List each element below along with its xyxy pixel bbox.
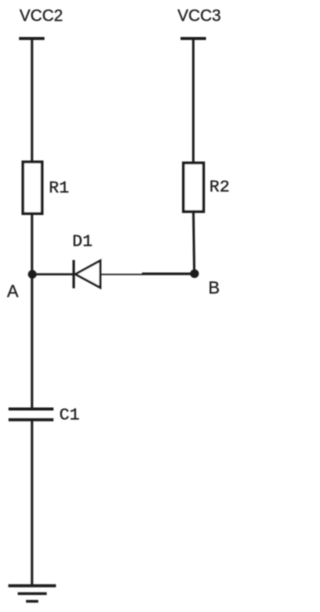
resistor R1 — [23, 162, 42, 214]
svg-text:VCC2: VCC2 — [20, 7, 63, 25]
svg-text:D1: D1 — [72, 233, 92, 252]
label C1 — [59, 406, 79, 425]
label R2 — [209, 178, 229, 197]
wire diode anode lead — [101, 273, 144, 275]
svg-text:R2: R2 — [209, 178, 229, 197]
resistor R2 — [183, 163, 203, 212]
capacitor C1 — [9, 409, 54, 420]
node B junction — [190, 269, 199, 278]
label D1 — [72, 233, 92, 252]
ground — [8, 586, 56, 602]
net label VCC3 — [178, 7, 221, 25]
label A — [7, 281, 19, 301]
label R1 — [49, 179, 69, 198]
wire node A to C1 top — [31, 274, 33, 408]
wire VCC2 bar to R1 top — [31, 39, 33, 163]
svg-text:A: A — [7, 281, 19, 301]
diode D1 — [74, 260, 101, 288]
power symbol VCC2 — [19, 37, 45, 40]
power symbol VCC3 — [181, 37, 207, 40]
wire node A to diode cathode — [32, 273, 73, 275]
net label VCC2 — [20, 7, 63, 25]
wire R1 bottom to node A — [31, 214, 33, 274]
label B — [208, 278, 219, 298]
wire node B to R2 bottom — [192, 212, 195, 274]
wire R2 top to VCC3 bar — [192, 39, 194, 164]
svg-text:R1: R1 — [49, 179, 69, 198]
wire C1 bottom to ground — [31, 420, 33, 585]
svg-text:B: B — [208, 278, 219, 298]
svg-text:C1: C1 — [59, 406, 79, 425]
node A junction — [28, 270, 37, 279]
svg-text:VCC3: VCC3 — [178, 7, 221, 25]
wire to node B — [142, 272, 195, 275]
